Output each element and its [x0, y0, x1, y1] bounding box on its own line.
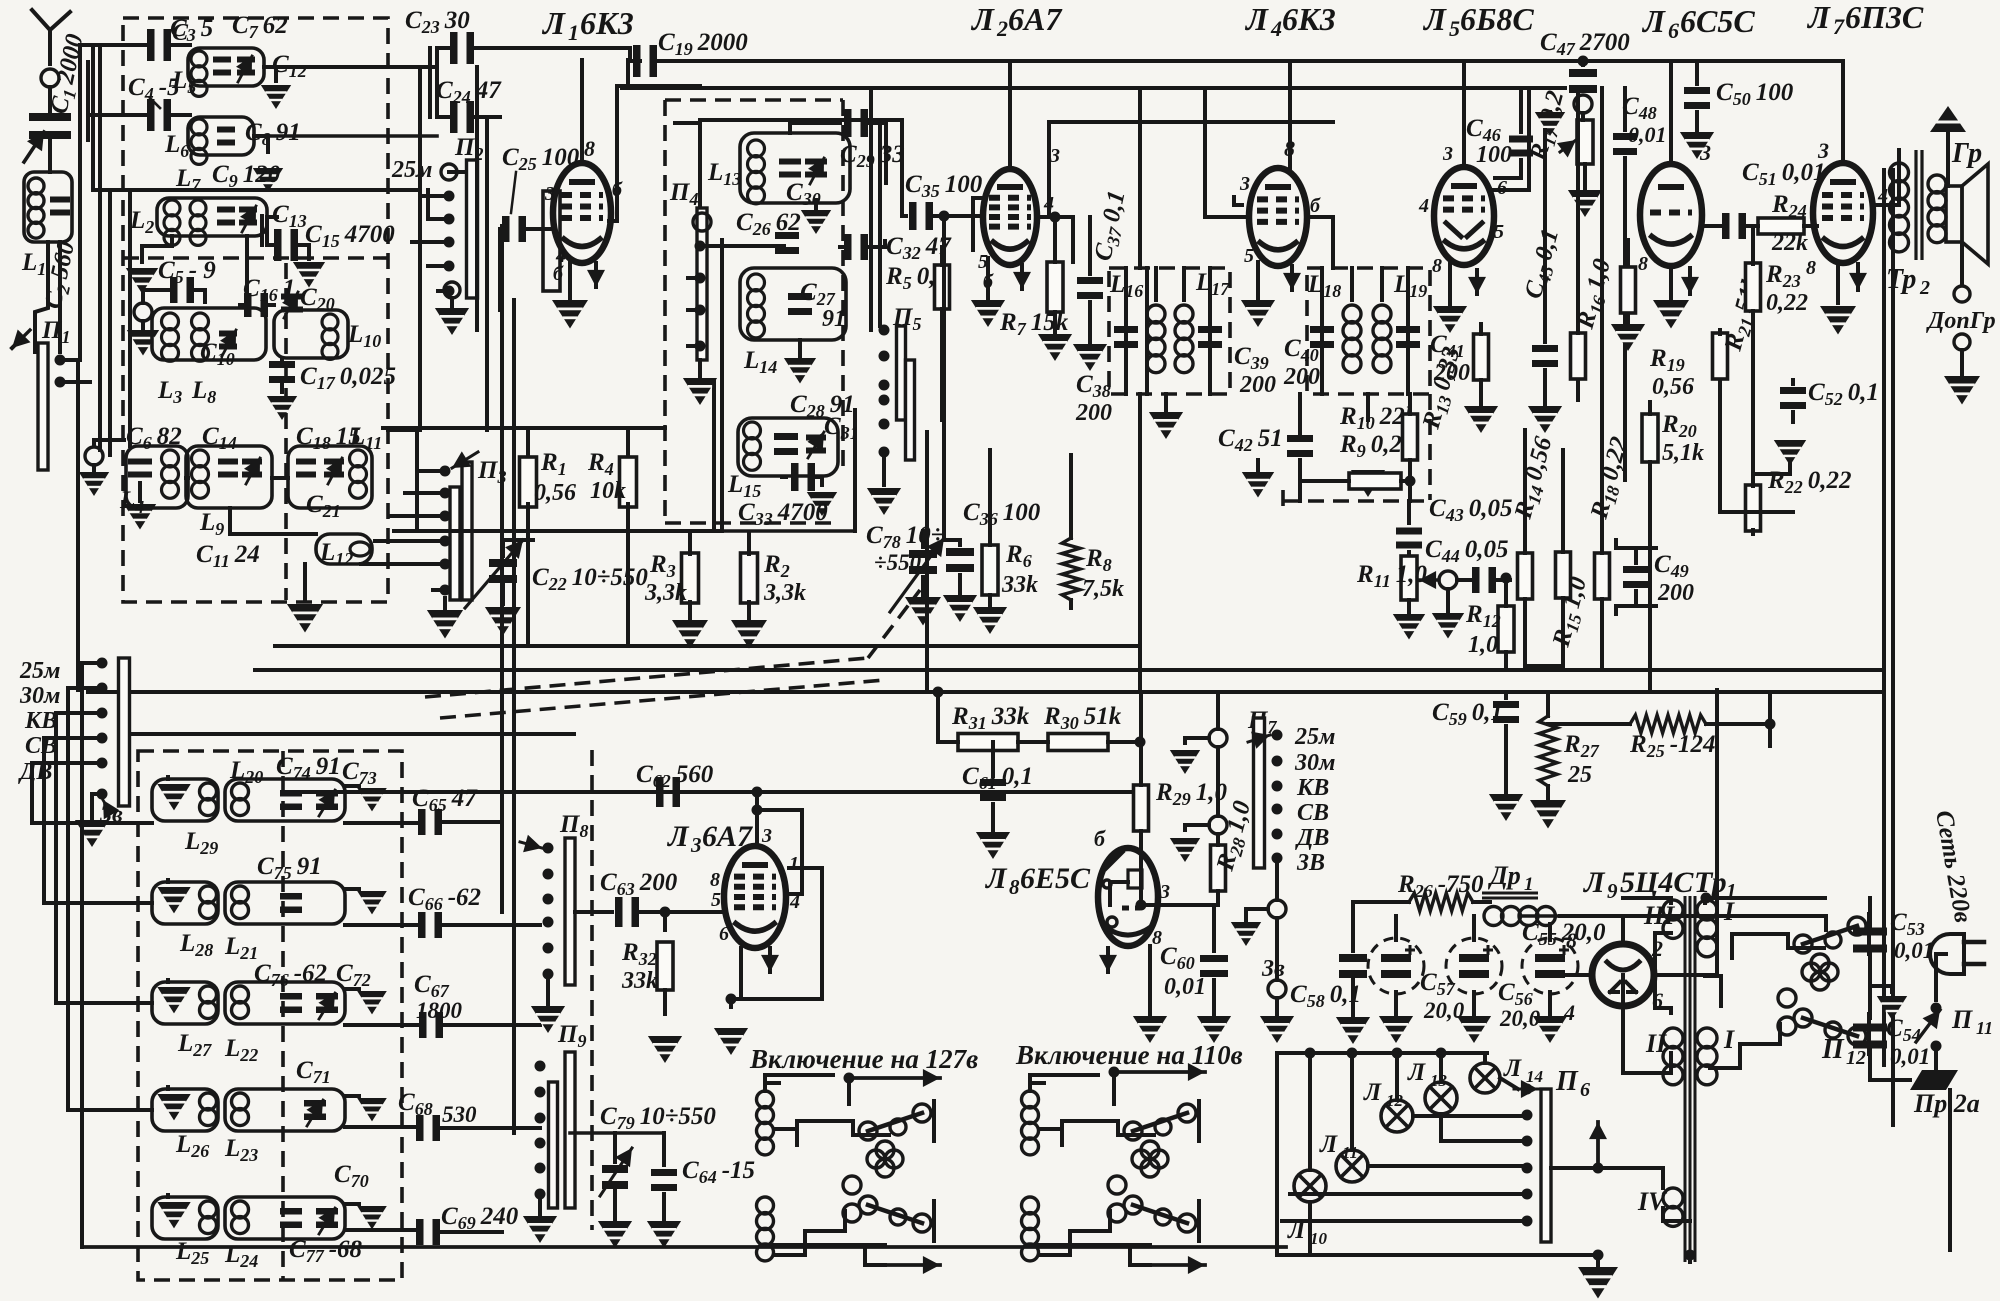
svg-text:C7810÷: C7810÷: [866, 522, 944, 552]
capacitor C76: [280, 993, 302, 1013]
switch P3 label: [477, 457, 506, 487]
label P7: [1247, 707, 1277, 737]
switch P2 label: [454, 134, 483, 164]
resistor R26 750 (zigzag): [1353, 893, 1490, 911]
switch P2 bar: [467, 160, 478, 298]
label R19 0,56: [1649, 345, 1694, 400]
svg-text:C69240: C69240: [441, 1203, 519, 1233]
fuse Pr2a: [1870, 1070, 1958, 1090]
svg-text:3,3k: 3,3k: [644, 580, 687, 606]
svg-text:C472700: C472700: [1540, 29, 1630, 59]
label R13 0,33: [1417, 344, 1468, 433]
label P6: [1555, 1066, 1590, 1101]
label tube L8 6E5S: [984, 862, 1091, 899]
svg-text:9: 9: [1607, 879, 1618, 903]
svg-text:C25100: C25100: [502, 144, 580, 174]
svg-text:Включение на 127в: Включение на 127в: [749, 1044, 978, 1074]
label L14: [743, 347, 777, 377]
label C31: [824, 413, 859, 443]
wire from P3 region: [415, 430, 419, 531]
switch P1 bar: [12, 330, 66, 471]
svg-text:3: 3: [690, 833, 702, 857]
label C49 200: [1654, 551, 1694, 606]
resistor R27 25 (zigzag): [1530, 692, 1566, 829]
svg-text:8: 8: [1284, 136, 1295, 161]
wire R25: [1548, 692, 1776, 746]
label C27 91: [800, 279, 846, 332]
capacitor C4 5: [147, 99, 171, 131]
label C26 62: [736, 209, 801, 239]
svg-text:7: 7: [1833, 14, 1845, 39]
capacitor C32 47: [840, 234, 885, 260]
svg-text:8: 8: [1432, 255, 1442, 277]
ground L14: [784, 340, 816, 384]
capacitor C74: [280, 790, 302, 810]
ground IFT1: [1149, 394, 1183, 439]
switch P9 bars: [549, 1052, 576, 1208]
ground top right: [1930, 106, 1966, 186]
svg-text:C62560: C62560: [636, 761, 714, 791]
inductor L11 tank: [288, 446, 372, 508]
label C73: [342, 758, 377, 788]
svg-text:C63200: C63200: [600, 869, 678, 899]
svg-text:6: 6: [1668, 18, 1679, 43]
label R31 33k: [951, 703, 1030, 733]
label C16 1: [243, 275, 295, 305]
label C41 200: [1430, 331, 1470, 386]
label R24 22k: [1771, 191, 1808, 256]
resistor R9 0,22: [1349, 473, 1401, 489]
label R12 1,0: [1465, 601, 1501, 658]
capacitor C27 91: [788, 293, 812, 315]
capacitor C70 (trimmer): [316, 1208, 338, 1234]
svg-text:4: 4: [1563, 1000, 1575, 1025]
label L11: [349, 423, 382, 453]
svg-text:4: 4: [1418, 195, 1429, 217]
resistor R4 10k: [620, 457, 637, 507]
label R28 1,0: [1211, 798, 1259, 876]
wires upper-left to P3: [100, 45, 430, 455]
svg-text:R25-124: R25-124: [1629, 731, 1716, 761]
svg-text:3: 3: [1159, 881, 1170, 903]
svg-text:б: б: [553, 263, 564, 285]
wire L6 right: [254, 134, 437, 138]
svg-text:I: I: [1723, 897, 1735, 926]
svg-text:3в: 3в: [1261, 956, 1285, 982]
resistor R8 7,5k (zigzag): [1062, 455, 1080, 608]
wire L3 cath: [741, 948, 779, 999]
capacitor C77: [280, 1208, 302, 1228]
label L5: [171, 67, 196, 97]
wire top row: [84, 43, 150, 47]
contact DopGr2: [1954, 334, 1970, 350]
capacitor C18: [296, 459, 316, 478]
svg-text:12: 12: [1386, 1091, 1404, 1110]
label tube L6 6S5S: [1641, 3, 1755, 43]
svg-text:R715k: R715k: [999, 309, 1069, 339]
oscillator dashed box: [665, 100, 843, 525]
svg-text:6: 6: [719, 923, 729, 945]
resistor R14 0,56: [1518, 430, 1533, 666]
label C57: [1420, 969, 1465, 1023]
ground bottom right: [1578, 1250, 1618, 1299]
svg-text:5,1k: 5,1k: [1662, 440, 1704, 466]
svg-text:Тр: Тр: [1886, 264, 1916, 295]
label C11 24: [196, 541, 260, 571]
svg-text:Л: Л: [1363, 1079, 1382, 1106]
dashed tuning link: [425, 590, 920, 718]
capacitor C63 200: [575, 897, 724, 927]
label C1: [45, 31, 91, 117]
wire bus mid3: [88, 690, 1884, 694]
lamp L10: [1294, 1053, 1326, 1255]
wire L7 cath: [1820, 263, 1867, 335]
switch P3 contacts: [440, 451, 479, 595]
capacitor C67 1800: [345, 1012, 540, 1038]
label P9: [557, 1021, 586, 1051]
capacitor C23 30: [437, 32, 630, 64]
wire w2: [1623, 898, 1671, 1073]
wire L6 anode right: [1700, 215, 1704, 226]
label P11: [1951, 1005, 1993, 1038]
label tube L3 6A7: [666, 820, 753, 857]
svg-text:Л: Л: [1641, 3, 1666, 39]
capacitor C28: [774, 433, 798, 455]
contact c2: [1170, 747, 1227, 862]
capacitor C5: [143, 277, 205, 303]
plug Set: [1930, 934, 1984, 974]
resistor R12 1,0: [1498, 580, 1514, 670]
ground L6 cath: [1653, 300, 1689, 329]
lamp L11: [1336, 1053, 1527, 1182]
inductor L17: [1175, 268, 1193, 373]
label R30 51k: [1043, 703, 1122, 733]
wire P1 contacts: [60, 360, 90, 382]
svg-text:б: б: [1310, 195, 1321, 217]
ground P8: [531, 974, 565, 1033]
svg-text:Л: Л: [1319, 1131, 1338, 1158]
label P4: [669, 179, 698, 209]
label C10: [200, 339, 235, 369]
tube L4 6K3: [1249, 168, 1307, 266]
svg-text:33k: 33k: [621, 968, 658, 994]
wire L2 pin4 node: [1037, 212, 1073, 223]
label C12: [272, 51, 307, 81]
label C71: [296, 1057, 331, 1087]
label P8: [559, 811, 588, 841]
svg-text:R26-750: R26-750: [1397, 871, 1484, 901]
svg-text:5: 5: [1494, 221, 1504, 243]
tube L6 6S5S: [1640, 164, 1702, 266]
svg-text:6А7: 6А7: [702, 820, 753, 853]
ground L2: [126, 236, 172, 294]
svg-text:0,01: 0,01: [1894, 938, 1934, 963]
ground C53: [1870, 986, 1907, 1020]
label R1: [534, 449, 576, 506]
label L28: [179, 930, 213, 960]
wire osc top: [700, 120, 790, 215]
wire down from R4: [628, 532, 648, 646]
wire bus mid2: [255, 668, 1884, 672]
capacitor C15 4700: [267, 217, 325, 288]
label L2: [129, 207, 154, 237]
capacitor C64 15: [647, 1133, 681, 1248]
svg-text:ДопГр: ДопГр: [1926, 308, 1996, 334]
wire P6 to IV: [1551, 1122, 1696, 1261]
svg-text:3: 3: [1442, 143, 1453, 165]
contact top: [79, 440, 124, 496]
pin labels L7: [1806, 138, 1888, 279]
svg-text:530: 530: [442, 1102, 477, 1127]
svg-text:5Ц4С: 5Ц4С: [1620, 866, 1694, 899]
lamp L12: [1381, 1053, 1527, 1132]
svg-text:11: 11: [1342, 1143, 1358, 1162]
label C55: [1522, 919, 1606, 949]
label L27: [177, 1030, 212, 1060]
svg-text:200: 200: [1075, 400, 1112, 426]
label R3: [644, 551, 687, 606]
inductor L19: [1373, 268, 1391, 373]
wire R1R4 bottom: [528, 504, 628, 646]
label C65 47: [412, 785, 478, 815]
wire L4 grid: [1205, 88, 1249, 217]
ground L5: [261, 67, 291, 109]
svg-text:R220,22: R220,22: [1767, 467, 1851, 497]
svg-text:П: П: [1951, 1005, 1973, 1034]
capacitor C62 560: [656, 777, 680, 807]
svg-text:C9120: C9120: [212, 161, 281, 191]
wire r22 up: [1753, 440, 1806, 486]
label 3v left: [99, 800, 123, 828]
wire C4 to L6: [168, 113, 190, 117]
label R32 33k: [621, 939, 658, 994]
label C9 120: [212, 161, 281, 191]
resistor R5: [935, 247, 950, 420]
pin 8 label: [584, 136, 595, 161]
svg-text:33k: 33k: [1001, 572, 1038, 598]
speaker Gr: [1946, 164, 1988, 264]
label R29 1,0: [1155, 779, 1227, 809]
label C8 91: [245, 119, 301, 149]
choke Dr1: [1482, 893, 1555, 926]
wire R17 chain: [1581, 113, 1585, 120]
left switch bar: [119, 658, 130, 806]
wire bus mid1: [275, 644, 1140, 648]
capacitor C29 33: [790, 109, 886, 183]
label L10: [347, 321, 381, 351]
svg-text:ДВ: ДВ: [1295, 825, 1329, 851]
label C51 0,01: [1742, 159, 1825, 189]
svg-text:Гр: Гр: [1951, 138, 1982, 169]
svg-text:200: 200: [1283, 364, 1320, 390]
resistor R20 5,1k: [1642, 402, 1658, 474]
wire C79 row: [570, 1131, 663, 1135]
label L26: [175, 1131, 209, 1161]
label C79: [600, 1103, 716, 1133]
wire antenna to P1: [35, 45, 93, 360]
svg-text:I: I: [1723, 1025, 1735, 1054]
tube L1 6K3: [553, 163, 611, 263]
svg-text:6П3С: 6П3С: [1845, 0, 1924, 35]
inductor L2: [157, 198, 267, 245]
svg-text:1: 1: [789, 853, 799, 875]
wire bus anode feeds: [1010, 61, 1843, 169]
capacitor C36 100: [943, 540, 977, 622]
capacitor C17 0,025: [267, 358, 297, 420]
label C15: [305, 221, 395, 251]
wire left verticals 2: [32, 663, 152, 1247]
capacitor C71 (trimmer): [304, 1100, 326, 1126]
svg-text:3В: 3В: [1296, 850, 1325, 876]
label C64 15: [682, 1157, 755, 1187]
pin labels L5: [1418, 143, 1507, 277]
wire fuse: [1948, 1090, 1952, 1250]
ground P5: [867, 452, 901, 515]
capacitor C66 62: [345, 912, 540, 938]
capacitor C13: [217, 206, 257, 232]
left contact wires: [32, 663, 102, 794]
rotary 127v: [757, 1069, 941, 1274]
wire L4 cath: [1241, 262, 1301, 327]
svg-text:200: 200: [1657, 580, 1694, 606]
label L22: [224, 1035, 258, 1065]
label C72: [336, 960, 371, 990]
transformer Tr1 core: [1685, 896, 1695, 1262]
resistor R11 1,0: [1393, 556, 1425, 640]
wire plug: [1936, 954, 1946, 1000]
label C45 0,1: [1520, 226, 1567, 302]
svg-text:0,01: 0,01: [1628, 122, 1667, 147]
pin labels L4: [1239, 136, 1321, 267]
wire L1 pin8: [580, 60, 584, 163]
label C28 91: [790, 391, 855, 421]
label L6: [164, 131, 189, 161]
label L19: [1393, 271, 1427, 301]
transformer Tr2: [1890, 150, 1947, 260]
svg-text:10: 10: [1310, 1229, 1328, 1248]
svg-text:4: 4: [1270, 16, 1282, 41]
wire row2: [88, 113, 150, 117]
label R2: [763, 551, 806, 606]
label R27 25: [1563, 731, 1600, 788]
svg-text:25м: 25м: [391, 157, 432, 183]
tube L7 6P3S: [1813, 163, 1873, 263]
svg-text:Л: Л: [984, 862, 1008, 895]
lamp wires: [1282, 1194, 1527, 1255]
capacitor C24 47: [437, 101, 500, 133]
label C77 68: [289, 1236, 363, 1266]
label C56: [1498, 979, 1541, 1031]
wire bus osc bottom: [394, 529, 722, 533]
rotary P12: [1710, 914, 1869, 1068]
label C53 0,01: [1890, 909, 1934, 963]
capacitor C1 2000 (variable): [24, 87, 71, 172]
tank row L24 L25: [152, 1195, 387, 1239]
capacitor C33 4700: [782, 463, 837, 516]
label R25 124: [1629, 731, 1716, 761]
svg-text:C510,01: C510,01: [1742, 159, 1825, 189]
svg-text:C430,05: C430,05: [1429, 495, 1512, 525]
label C44 0,05: [1425, 536, 1508, 566]
label C43 0,05: [1429, 495, 1512, 525]
inductor L13: [740, 133, 850, 204]
svg-text:КВ: КВ: [1296, 775, 1329, 801]
label C18 15: [296, 423, 361, 453]
label b l8: [1094, 826, 1170, 949]
svg-text:6К3: 6К3: [1282, 1, 1336, 37]
IFT1 frame wires: [1126, 268, 1210, 394]
P7 labels: [1294, 724, 1335, 876]
capacitor C75: [280, 893, 302, 913]
label C13: [272, 201, 307, 231]
label L23: [224, 1135, 258, 1165]
label L12: [319, 539, 353, 569]
resistor R22 0,22: [1746, 485, 1761, 534]
rotary 110v: [1022, 1063, 1206, 1274]
label R9 0,22: [1339, 431, 1414, 461]
svg-text:8: 8: [584, 136, 595, 161]
svg-text:6: 6: [1497, 177, 1507, 199]
ground under contact: [127, 321, 159, 356]
svg-text:СВ: СВ: [1297, 800, 1329, 826]
dot c62: [752, 787, 763, 798]
wire R1R4 top: [383, 428, 665, 460]
capacitor C30: [779, 158, 827, 184]
inductor L12 (loop): [316, 534, 372, 564]
left contacts: [97, 658, 108, 800]
inductor L4 tank: [126, 446, 188, 508]
label C38 200: [1075, 371, 1112, 426]
winding IV: [1637, 1187, 1683, 1226]
capacitor C52 0,1: [1780, 380, 1806, 422]
label R20: [1661, 411, 1704, 466]
label L21: [224, 933, 258, 963]
ground L2 cath: [971, 258, 1031, 327]
capacitor C41 200: [1396, 326, 1420, 348]
resistor R2 3,3k: [731, 533, 767, 649]
dashed divider P8: [590, 750, 594, 1230]
label C40 200: [1283, 335, 1320, 390]
label R11 1,0: [1356, 561, 1427, 591]
label Dr1: [1488, 861, 1534, 895]
label C20: [300, 284, 335, 314]
resistor R25 124 (zigzag): [1630, 715, 1706, 733]
wire C42 col: [1298, 394, 1302, 501]
label C54 0,01: [1886, 1015, 1930, 1069]
capacitor C65 47: [345, 809, 502, 835]
winding II: [1645, 1028, 1683, 1085]
wire L4 anode: [1049, 88, 1529, 268]
capacitor C54 0,01: [1853, 1024, 1887, 1079]
label C76 62: [254, 960, 327, 990]
svg-text:C50100: C50100: [1716, 79, 1794, 109]
label C23 30: [405, 7, 470, 37]
input filter dashed box: [123, 18, 388, 602]
resistor R17 0,2: [1557, 120, 1593, 164]
capacitor C21: [324, 458, 344, 484]
svg-text:Л: Л: [1422, 1, 1447, 37]
dashed AVC line: [1283, 490, 1433, 510]
svg-text:б: б: [1094, 826, 1106, 851]
switch P4 contacts: [688, 213, 784, 352]
label R16 1,0: [1571, 256, 1619, 334]
label P12: [1821, 1034, 1866, 1069]
wire L7 anode: [1873, 163, 1899, 205]
lamp box dots: [1305, 1048, 1447, 1059]
svg-text:20,0: 20,0: [1423, 998, 1465, 1023]
wire IFT1 vert: [1138, 88, 1142, 692]
label R4: [587, 449, 626, 504]
